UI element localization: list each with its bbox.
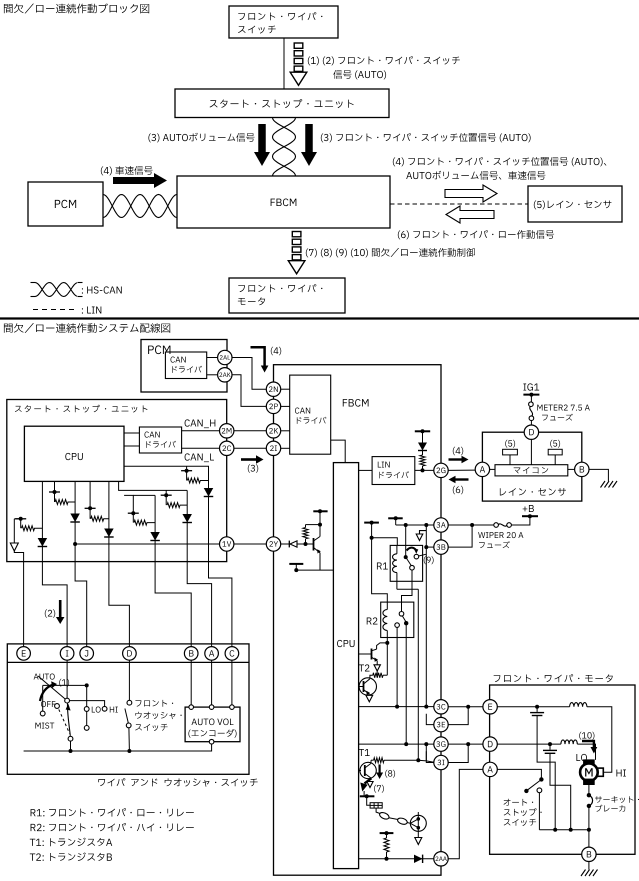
- label AUTO: [34, 674, 55, 680]
- diode to 2AA: [414, 855, 423, 863]
- wire capsule link: [389, 818, 398, 820]
- R2 NC contact: [395, 623, 400, 628]
- wire CAN driver to 2C: [182, 447, 220, 449]
- outline arrow left: [446, 206, 494, 223]
- R1 coil: [396, 545, 398, 553]
- outline arrow right: [445, 185, 497, 202]
- label (1): [59, 679, 69, 687]
- wire 2Y to diode: [281, 543, 289, 545]
- block: front wiper switch box: [229, 6, 338, 38]
- wire D to microcomputer: [530, 439, 532, 464]
- label (6) front wiper low operation signal: [398, 230, 554, 239]
- wire CAN driver to 2AK: [207, 374, 218, 376]
- thick arrow down left: [258, 124, 266, 152]
- cluster B diode: [104, 529, 114, 538]
- cluster F diode: [38, 538, 48, 547]
- 3G bus wire: [359, 743, 434, 745]
- block: FBCM box: [177, 176, 390, 228]
- twisted pair between start-stop unit and FBCM: [273, 118, 296, 177]
- cluster C resistor: [134, 520, 155, 525]
- AUTO VOL ground pin: [209, 739, 214, 744]
- terminal I: [60, 647, 74, 661]
- label (5) sensor element left: [505, 440, 515, 448]
- terminal 2M: [220, 424, 234, 438]
- resistor to 2AA line: [386, 833, 388, 838]
- wire 2AA to A: [448, 769, 483, 858]
- terminal E: [483, 700, 497, 714]
- T1 base resistor: [371, 759, 374, 761]
- label CAN_L: [185, 453, 214, 462]
- cluster D feed from CPU: [119, 481, 188, 490]
- terminal B: [582, 847, 596, 861]
- wire to terminal I: [42, 562, 67, 647]
- wire 2AL to 2N: [232, 358, 266, 390]
- label (7)(8)(9)(10) intermittent/low control: [306, 248, 475, 257]
- twisted pair PCM to FBCM (HS-CAN): [103, 195, 177, 218]
- connector capsule 1: [379, 811, 390, 820]
- terminal 3A: [434, 518, 448, 532]
- terminal E: [17, 647, 31, 661]
- T2 emitter arrow: [376, 661, 378, 665]
- unit CPU box: [24, 426, 124, 481]
- label LO: [92, 707, 101, 713]
- thick arrow down right: [305, 124, 313, 152]
- R1 relay box: [390, 545, 422, 581]
- label front wiper motor: [494, 674, 613, 682]
- terminal 2G: [434, 463, 448, 477]
- terminal 3E: [434, 717, 448, 731]
- wire 3I to 3G node (left): [426, 751, 434, 762]
- FBCM box: [274, 365, 442, 876]
- wire 3G node down to T1 row: [425, 744, 427, 760]
- cluster B vertical wire: [108, 481, 110, 562]
- cluster B resistor: [91, 516, 109, 521]
- terminal A: [205, 647, 219, 661]
- auto stop switch: [497, 769, 541, 777]
- label MIST: [35, 723, 54, 729]
- transistor Q3 (circled): [359, 678, 376, 695]
- wire C to AUTO VOL: [231, 660, 233, 705]
- wire grid box down: [376, 808, 380, 813]
- cluster A feed from CPU: [54, 481, 56, 492]
- annotation (4) arrow: [251, 347, 265, 365]
- wire supply to 3A: [396, 524, 434, 526]
- label auto stop switch: [504, 799, 534, 806]
- label WIPER 20 A fuse: [478, 532, 523, 538]
- transistor at 2Y input: [313, 538, 315, 551]
- R2 relay box: [381, 602, 414, 637]
- wire B to AUTO VOL: [190, 660, 192, 705]
- R2 coil: [383, 610, 387, 631]
- R1 NC contact: [410, 565, 415, 570]
- wire to R2 common: [402, 589, 413, 611]
- annotation (10) arrow: [579, 732, 594, 740]
- supply bar above 2G: [415, 430, 430, 432]
- annotation striped arrow (7)-(10): [292, 232, 301, 237]
- wire 2M to 2K (CAN_H): [234, 430, 266, 432]
- transistor Q4 (circled) washer driver: [417, 812, 419, 815]
- connector capsule 2: [397, 817, 408, 825]
- wire E to HI (with choke): [497, 706, 569, 708]
- terminal A: [483, 762, 497, 776]
- bar terminal 2Y emitter: [289, 563, 303, 565]
- wire 2I to CAN driver: [281, 447, 290, 449]
- wire 2G to rain sensor A: [448, 469, 475, 471]
- wire LIN driver to 2G: [415, 469, 434, 471]
- wire to terminal E: [23, 562, 25, 647]
- separator line: [0, 317, 639, 319]
- terminal 2AK: [218, 368, 232, 382]
- unit CAN driver box: [139, 427, 181, 453]
- arrow below Q3: [366, 695, 373, 702]
- capacitor D row: [549, 744, 551, 750]
- +B terminal: [522, 515, 538, 517]
- wire R1 outputs: [411, 570, 413, 589]
- wire D to LO (with choke): [497, 743, 561, 745]
- wire J to LO contact: [86, 685, 88, 706]
- label T2: [359, 664, 370, 671]
- label CAN_H: [185, 419, 216, 428]
- pivot contact: [65, 698, 70, 703]
- wire 3I to D node (right): [448, 744, 468, 762]
- terminal C: [225, 647, 239, 661]
- cluster C feed from CPU: [124, 495, 133, 513]
- cluster D vertical wire: [186, 490, 188, 562]
- annotation (8) arrow: [379, 765, 381, 773]
- terminal B: [184, 647, 198, 661]
- dashed arm to OFF: [59, 709, 70, 733]
- terminal 2Y: [266, 537, 280, 551]
- curved arrow (1) OFF to AUTO: [40, 685, 53, 701]
- annotation striped arrow (1)(2): [294, 43, 303, 48]
- terminal 1V: [220, 537, 234, 551]
- cluster E feed from CPU: [124, 466, 208, 562]
- wire 3B to fuse junction: [448, 525, 472, 547]
- label OFF: [41, 701, 55, 707]
- label rain sensor: [500, 488, 566, 496]
- block diagram title: [4, 3, 149, 13]
- wire 3G to D: [448, 743, 483, 745]
- motor HI brush tab: [598, 768, 604, 776]
- common contact: [68, 736, 73, 741]
- diode at 2Y (pointing left): [288, 541, 290, 548]
- label (5) sensor element right: [550, 440, 560, 448]
- legend T1: [30, 838, 112, 847]
- terminal 2P: [266, 399, 280, 413]
- terminal 2C: [220, 441, 234, 455]
- sensor element right: [548, 449, 562, 455]
- terminal 3G: [434, 737, 448, 751]
- T1 emitter to bar terminal: [363, 791, 365, 796]
- T1 emitter thick arrow (7): [365, 774, 372, 779]
- legend R1: [31, 808, 194, 816]
- R1 switch arm: [406, 557, 412, 565]
- wire bus to B: [588, 830, 590, 847]
- label HI: [616, 770, 625, 777]
- wire R2 NC to 3C bus: [396, 627, 398, 706]
- wire motor to circuit breaker: [588, 785, 590, 796]
- terminal A: [475, 462, 489, 476]
- wire 2C to 2I (CAN_L): [234, 447, 266, 449]
- R2 switch arm: [402, 616, 406, 622]
- washer switch arm: [125, 709, 128, 724]
- legend LIN symbol: [33, 309, 76, 311]
- unit ground triangle: [13, 519, 15, 543]
- terminal B: [575, 462, 589, 476]
- cluster C vertical wire: [154, 495, 156, 562]
- HI branch: [70, 701, 105, 707]
- label (3) AUTO volume signal: [148, 133, 254, 143]
- wiper washer switch box: [7, 644, 249, 774]
- FBCM CPU box: [333, 463, 358, 869]
- start-stop unit box: [7, 400, 227, 562]
- label HI: [110, 707, 118, 713]
- wire supply to R1 coil: [372, 538, 398, 546]
- IG1 terminal bar: [523, 394, 539, 396]
- terminal 2AA: [434, 852, 448, 866]
- wire 2P to CAN driver: [281, 405, 290, 407]
- wire CAN driver to CPU: [331, 440, 346, 463]
- wire 2N to CAN driver: [281, 388, 290, 390]
- terminal 3I: [434, 755, 448, 769]
- arrow below Q4: [417, 831, 419, 837]
- AUTO VOL encoder box: [185, 707, 240, 742]
- terminal D: [483, 737, 497, 751]
- bar terminal near 2AA: [380, 832, 394, 834]
- ground rain sensor: [601, 481, 618, 488]
- wire to terminal B: [155, 562, 191, 647]
- annotation (6) arrow left: [456, 478, 469, 480]
- wire to terminal D: [109, 562, 129, 647]
- circuit breaker: [587, 793, 591, 797]
- wire 1V internal: [75, 543, 219, 545]
- rain sensor box: [482, 432, 581, 501]
- label T1: [359, 749, 370, 756]
- wire I to switch pivot: [66, 660, 68, 698]
- wire supply to R2 coil: [372, 538, 388, 610]
- switch common bus wire: [24, 744, 212, 751]
- cluster B feed from CPU: [89, 481, 91, 508]
- thick arrow right vehicle speed: [113, 177, 154, 184]
- R1 switch common: [405, 525, 407, 557]
- annotation (2) arrow: [59, 600, 62, 617]
- legend R2: [31, 823, 194, 831]
- FBCM CAN driver box: [290, 375, 331, 454]
- R2 switch common contact: [399, 612, 404, 617]
- transistor T1 (circled): [360, 762, 376, 778]
- supply bar 2Y circuit: [313, 510, 327, 512]
- rotary switch arm (solid, at AUTO): [38, 676, 67, 701]
- vertical wire 3A node to 3C bus: [425, 525, 427, 707]
- dashed LIN line FBCM to rain sensor: [390, 203, 528, 205]
- wire 2K to CAN driver: [281, 430, 290, 432]
- choke coil D row: [561, 740, 577, 744]
- annotation (4) arrow right: [453, 447, 463, 455]
- cluster E diode: [204, 488, 214, 497]
- cluster F resistor: [14, 518, 20, 520]
- wire 2AK to 2P: [232, 375, 266, 407]
- microcomputer box: [495, 465, 568, 476]
- cluster E resistor: [187, 478, 208, 483]
- 2G zener diode: [418, 443, 427, 451]
- wiring diagram title: [4, 323, 170, 333]
- R1 curved arrow: [407, 548, 417, 551]
- terminal 2K: [266, 424, 280, 438]
- cluster C diode: [150, 532, 160, 541]
- PCM box: [141, 340, 227, 393]
- label (1)(2) front wiper switch signal: [308, 56, 460, 65]
- wire 1V to 2Y: [234, 543, 266, 545]
- supply bar terminal 3A feed: [388, 517, 403, 519]
- R1 NO contact: [414, 554, 419, 559]
- wire 3C to E: [448, 706, 483, 708]
- terminal 2AL: [218, 350, 232, 364]
- wire transistor emitter to CPU: [296, 569, 333, 571]
- cluster A diode: [70, 514, 80, 523]
- label (4) vehicle speed signal: [101, 166, 153, 175]
- wire A to AUTO VOL: [211, 660, 213, 705]
- capacitor E row: [536, 707, 538, 712]
- T2 emitter resistor: [370, 675, 373, 678]
- wire 3A to fuse: [448, 524, 494, 526]
- wire B to ground: [589, 469, 608, 481]
- sensor element left: [503, 449, 518, 455]
- washer driver component (grid box): [370, 803, 382, 808]
- ground below B: [588, 862, 590, 870]
- wire R2 arm to 3G bus: [405, 623, 407, 744]
- label LO: [576, 754, 587, 761]
- motor M: [584, 760, 595, 765]
- cluster F vertical wire with diode: [41, 481, 43, 562]
- label (3) front wiper switch position signal: [321, 133, 531, 142]
- supply bar terminal R1/R2: [364, 522, 379, 524]
- OFF contact: [55, 704, 60, 709]
- label circuit breaker: [595, 796, 639, 803]
- cluster A resistor: [55, 500, 75, 505]
- washer switch wire from D: [128, 660, 130, 700]
- motor internal ground bus: [539, 829, 589, 831]
- label IG1: [523, 383, 539, 390]
- block: rain sensor box: [528, 186, 622, 222]
- terminal 3B: [434, 540, 448, 554]
- wire to terminal C: [209, 562, 232, 647]
- 2Y pull-up resistor: [305, 539, 307, 544]
- wire 3E to 3C node (left): [426, 714, 434, 725]
- PCM CAN driver box: [165, 352, 206, 379]
- wire CPU to LIN driver: [359, 469, 373, 471]
- cluster D diode: [182, 514, 192, 523]
- wire CPU pin to J via diode: [74, 481, 76, 562]
- choke coil E row: [570, 703, 587, 707]
- wire fuse to +B: [511, 516, 530, 525]
- wire to terminal A: [187, 562, 211, 647]
- terminal J: [80, 647, 94, 661]
- front wiper motor box: [490, 685, 635, 854]
- wire 3E to E node (right): [448, 707, 468, 725]
- WIPER 20A fuse: [494, 523, 499, 528]
- block: PCM box: [28, 182, 103, 226]
- annotation (9) hook arrow: [420, 531, 427, 534]
- terminal 3C: [434, 700, 448, 714]
- 3C bus wire: [359, 706, 434, 708]
- terminal 2I: [266, 441, 280, 455]
- vertical wire R1 node to T1 row: [417, 589, 419, 760]
- wire 3B junction: [426, 546, 434, 548]
- 2G pull-up resistor: [422, 466, 424, 470]
- legend HS-CAN symbol: [35, 283, 77, 297]
- FBCM LIN driver box: [372, 457, 415, 485]
- wire CAN driver to 2AL: [207, 357, 218, 359]
- wire switch to start-stop unit: [283, 38, 285, 89]
- label (4) switch position signal etc: [393, 157, 607, 166]
- wire to terminal J: [75, 562, 87, 647]
- block: start-stop unit box: [175, 89, 389, 118]
- METER2 fuse: [529, 402, 534, 407]
- cluster D resistor: [167, 503, 187, 508]
- legend T2: [30, 852, 112, 861]
- block: front wiper motor box: [229, 278, 345, 313]
- label wiper and washer switch: [98, 778, 257, 787]
- washer switch label: [135, 700, 173, 707]
- MIST branch wire: [43, 684, 87, 686]
- 2AA wire: [359, 858, 434, 860]
- annotation (3) arrow: [241, 458, 256, 461]
- terminal 2N: [266, 382, 280, 396]
- terminal D: [123, 647, 137, 661]
- wire CAN driver to 2M: [182, 430, 220, 432]
- label METER2 7.5 A fuse: [537, 405, 590, 411]
- connector strip line: [7, 661, 249, 663]
- MIST contact: [40, 711, 45, 716]
- transistor T2: [377, 643, 388, 649]
- wire CPU to CAN driver: [124, 432, 139, 434]
- terminal D: [524, 425, 538, 439]
